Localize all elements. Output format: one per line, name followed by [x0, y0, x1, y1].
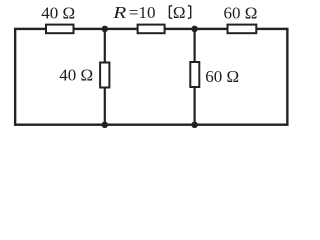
- resistor 60 ohm (top-right horizontal box): [228, 25, 257, 34]
- wire: outer loop (top, right, bottom, left conductors): [15, 29, 287, 125]
- node: top-left junction: [102, 26, 109, 33]
- svg-text:40 Ω: 40 Ω: [41, 4, 75, 23]
- svg-text:40 Ω: 40 Ω: [59, 65, 93, 84]
- svg-text:60 Ω: 60 Ω: [205, 67, 239, 86]
- resistor 40 ohm (top-left horizontal box): [46, 25, 74, 34]
- resistor R = 10 ohm (top-middle horizontal box): [138, 25, 165, 34]
- svg-text:60 Ω: 60 Ω: [224, 4, 258, 23]
- svg-text:R: R: [112, 4, 126, 22]
- resistor 60 ohm (right vertical box): [190, 62, 199, 87]
- wire: left middle branch (vertical): [104, 29, 106, 125]
- svg-text:=10: =10: [129, 3, 156, 22]
- node: bottom-left junction: [102, 122, 109, 129]
- svg-text:Ω: Ω: [173, 3, 186, 22]
- node: bottom-right junction: [191, 122, 198, 129]
- wire: right middle branch (vertical): [194, 29, 196, 125]
- node: top-right junction: [191, 26, 198, 33]
- resistor 40 ohm (left vertical box): [100, 63, 109, 88]
- label: right tortoise bracket of unit: [188, 5, 191, 18]
- label: left tortoise bracket of unit: [169, 5, 172, 18]
